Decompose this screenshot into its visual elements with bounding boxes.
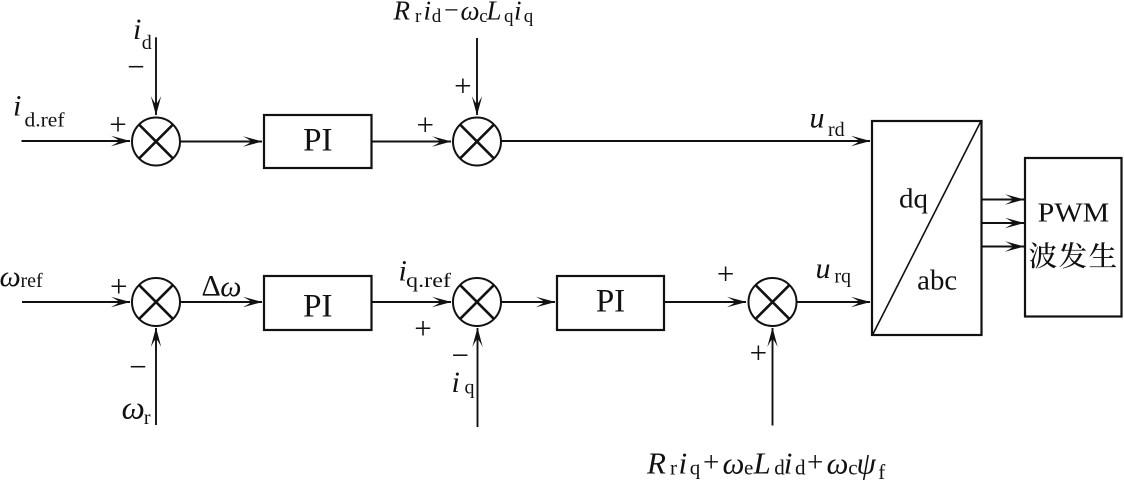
svg-text:+: + — [110, 269, 127, 304]
svg-text:ψ: ψ — [857, 446, 877, 481]
svg-text:−: − — [129, 349, 146, 384]
svg-text:ω: ω — [122, 391, 145, 427]
svg-text:ω: ω — [0, 260, 21, 293]
svg-text:d: d — [795, 456, 806, 480]
svg-text:R: R — [393, 0, 411, 26]
svg-text:R: R — [646, 446, 666, 481]
svg-text:PI: PI — [596, 284, 625, 320]
svg-text:ref: ref — [21, 270, 44, 292]
svg-text:d: d — [432, 6, 442, 27]
svg-text:+: + — [750, 335, 767, 370]
svg-text:r: r — [670, 456, 677, 480]
svg-text:−: − — [451, 338, 468, 373]
svg-text:+: + — [703, 447, 719, 479]
svg-text:q: q — [690, 456, 701, 480]
svg-text:i: i — [13, 89, 21, 122]
svg-text:+: + — [417, 107, 434, 142]
svg-text:ω: ω — [220, 270, 241, 303]
svg-text:PI: PI — [303, 288, 332, 324]
svg-text:i: i — [424, 0, 432, 26]
svg-text:q.ref: q.ref — [406, 270, 451, 292]
svg-text:r: r — [144, 407, 151, 429]
svg-text:L: L — [486, 0, 502, 26]
svg-text:PWM: PWM — [1038, 198, 1110, 228]
svg-text:PI: PI — [303, 123, 332, 159]
svg-text:i: i — [679, 446, 688, 481]
svg-text:rd: rd — [828, 119, 845, 141]
svg-text:ω: ω — [827, 446, 849, 481]
svg-text:r: r — [415, 6, 422, 27]
svg-text:abc: abc — [917, 266, 957, 297]
svg-text:−: − — [127, 49, 144, 84]
svg-text:L: L — [753, 446, 771, 481]
svg-text:+: + — [807, 447, 823, 479]
svg-text:q: q — [524, 6, 534, 27]
svg-text:u: u — [810, 102, 825, 135]
svg-text:i: i — [514, 0, 522, 26]
svg-text:d.ref: d.ref — [25, 110, 65, 132]
svg-text:f: f — [878, 460, 885, 484]
svg-text:Δ: Δ — [202, 270, 221, 303]
svg-text:+: + — [717, 256, 734, 291]
svg-text:dq: dq — [899, 184, 929, 214]
svg-text:+: + — [414, 310, 431, 345]
svg-text:i: i — [784, 446, 793, 481]
svg-text:q: q — [465, 377, 475, 399]
svg-text:+: + — [454, 68, 471, 103]
svg-text:ω: ω — [461, 0, 480, 26]
svg-text:ω: ω — [723, 446, 745, 481]
svg-text:i: i — [133, 13, 141, 46]
svg-text:+: + — [109, 107, 126, 142]
svg-text:rq: rq — [834, 265, 851, 287]
svg-text:q: q — [504, 6, 514, 27]
svg-text:e: e — [744, 456, 753, 480]
svg-text:−: − — [444, 0, 459, 25]
svg-text:u: u — [816, 252, 831, 285]
